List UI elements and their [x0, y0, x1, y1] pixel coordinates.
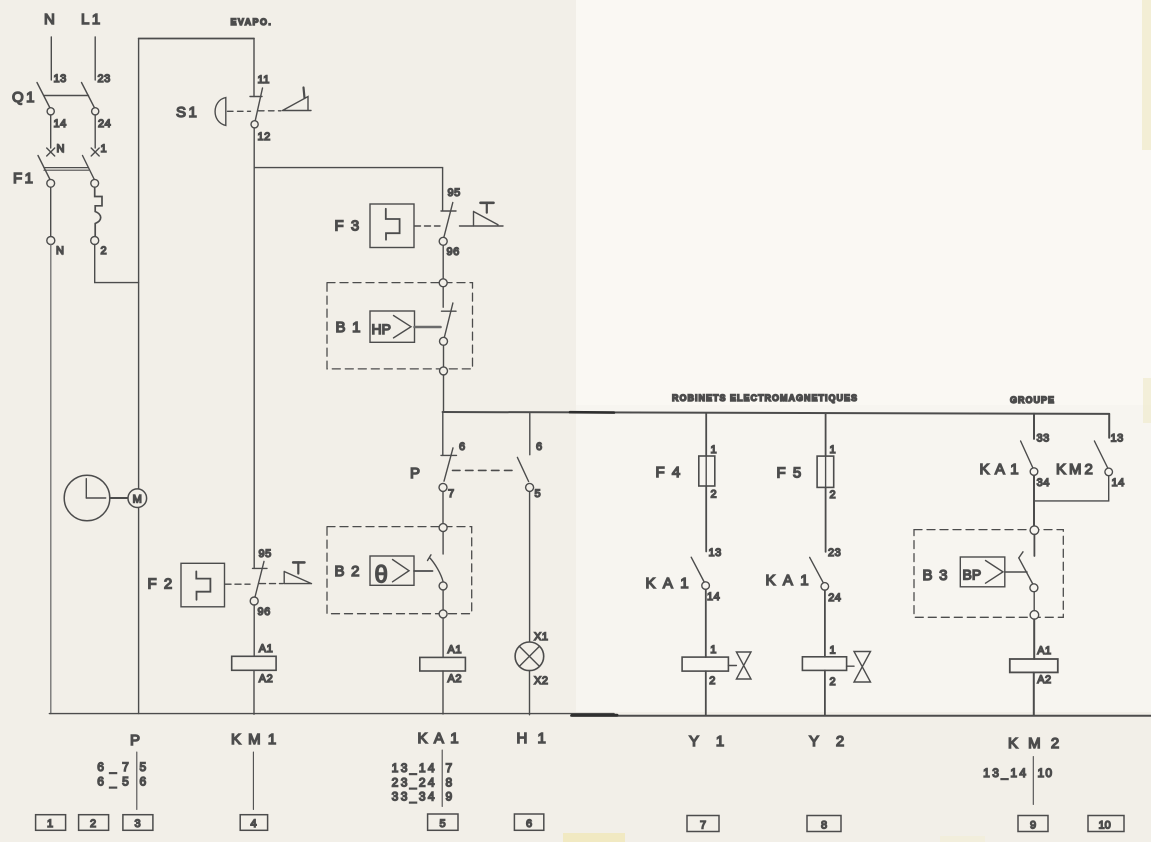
overload F1 heater element: [95, 187, 102, 236]
svg-text:A1: A1: [259, 643, 273, 655]
pressure switch B1 dashed box: [327, 283, 473, 369]
leader line KM2: [1032, 757, 1034, 805]
sheet box 1: [36, 815, 66, 831]
svg-text:K A 1: K A 1: [766, 572, 811, 589]
svg-text:6 _ 5: 6 _ 5: [97, 775, 130, 789]
wire F2-96 to KM1 coil: [253, 605, 255, 656]
relay F2 symbol: [196, 571, 210, 599]
svg-text:7: 7: [700, 820, 706, 832]
svg-text:2: 2: [90, 818, 96, 830]
wire KA1-34 down: [1033, 476, 1035, 527]
node B3 bottom terminal: [1030, 611, 1039, 620]
svg-text:M: M: [133, 494, 142, 506]
svg-text:13: 13: [709, 547, 722, 559]
valve Y2 body: [847, 665, 854, 667]
svg-text:BP: BP: [963, 567, 982, 583]
sheet box 2: [79, 815, 109, 831]
svg-text:10: 10: [1099, 820, 1111, 832]
svg-text:H 1: H 1: [517, 730, 549, 747]
thermostat B2 dashed box: [327, 527, 472, 614]
svg-text:96: 96: [258, 606, 271, 618]
svg-text:A2: A2: [448, 673, 462, 685]
contact P mechanical dashed link: [453, 469, 518, 471]
wire rail overlap joint: [570, 411, 614, 414]
svg-text:GROUPE: GROUPE: [1010, 395, 1055, 405]
svg-text:F1: F1: [13, 170, 36, 187]
leader line KA1: [441, 750, 443, 807]
svg-text:6: 6: [536, 441, 543, 453]
svg-text:2: 2: [709, 675, 716, 687]
terminal cross N: [47, 148, 55, 156]
svg-text:A1: A1: [1037, 645, 1051, 657]
overload F1 mechanical link: [44, 167, 89, 169]
motor M of timer: [128, 489, 147, 508]
svg-text:33: 33: [1037, 433, 1050, 445]
svg-text:24: 24: [98, 118, 111, 130]
wire Y1 to rail: [705, 671, 707, 715]
wire F5 to KA1 contact: [825, 487, 827, 552]
node B2 bottom terminal: [439, 610, 447, 618]
svg-text:5: 5: [440, 818, 446, 830]
svg-text:95: 95: [448, 187, 461, 199]
wire KM2 13-14 drop: [1108, 414, 1110, 438]
node B1 top terminal: [439, 279, 447, 287]
wire KM1 coil to rail: [253, 670, 255, 714]
svg-text:5: 5: [140, 760, 148, 774]
contact F2 95-96 tick: [253, 567, 268, 569]
svg-text:6: 6: [459, 441, 466, 453]
svg-text:1: 1: [47, 818, 53, 830]
svg-text:HP: HP: [372, 321, 391, 337]
svg-text:K M 1: K M 1: [231, 731, 278, 748]
wire L1 supply: [94, 37, 96, 80]
wire B2 to KA1 coil: [442, 618, 444, 657]
wire B1 internal bottom: [443, 345, 445, 367]
svg-text:13_14: 13_14: [392, 761, 437, 775]
svg-text:2: 2: [830, 676, 837, 688]
pressure switch B3 dashed box: [914, 530, 1063, 618]
switch S1 actuator dashes: [228, 110, 251, 112]
leader line P: [136, 752, 138, 810]
svg-text:F 2: F 2: [148, 576, 174, 593]
svg-text:14: 14: [1112, 477, 1125, 489]
svg-text:9: 9: [446, 790, 454, 804]
svg-text:13: 13: [54, 73, 67, 85]
switch S1 flag I: [283, 97, 312, 111]
svg-text:10: 10: [1038, 766, 1054, 780]
wire F4 to KA1 contact: [705, 486, 707, 552]
wire KA1-14 to Y1: [705, 589, 707, 657]
valve coil Y1: [682, 657, 728, 671]
svg-text:KM2: KM2: [1056, 461, 1096, 478]
svg-text:K A 1: K A 1: [980, 461, 1020, 478]
svg-text:9: 9: [1030, 820, 1036, 832]
contact B1 tick: [442, 310, 457, 312]
sheet box 10: [1088, 816, 1124, 832]
wire P-7 to B2: [442, 492, 444, 524]
svg-text:2: 2: [711, 489, 718, 501]
switch Q1 pole 13-14 blade: [37, 83, 50, 109]
wire B3 to KM2 coil: [1033, 619, 1035, 659]
svg-text:F 5: F 5: [777, 465, 803, 482]
valve coil Y2: [802, 657, 846, 671]
sheet box 6: [514, 814, 543, 830]
svg-text:ROBINETS ELECTROMAGNETIQUES: ROBINETS ELECTROMAGNETIQUES: [672, 393, 858, 403]
svg-text:A2: A2: [1037, 674, 1051, 686]
contact KA1 23-24 blade: [810, 557, 824, 582]
relay F3 box: [370, 204, 414, 248]
svg-text:N: N: [44, 11, 57, 28]
svg-text:X2: X2: [534, 675, 548, 687]
wire S1 drop: [253, 39, 255, 97]
timer clock symbol: [64, 475, 110, 521]
svg-text:7: 7: [446, 761, 454, 775]
svg-text:8: 8: [821, 820, 827, 832]
sensor B1 actuator link: [415, 326, 441, 329]
sensor B3 BP box: [960, 557, 1005, 587]
wire KA1 33-34 drop: [1033, 414, 1035, 439]
svg-text:8: 8: [446, 776, 454, 790]
wire KA1 coil to rail: [442, 671, 444, 714]
svg-text:Y 1: Y 1: [689, 733, 731, 750]
scan stain right mid: [1143, 378, 1151, 423]
wire P-5 to H1: [529, 492, 531, 642]
contact B1 blade: [444, 303, 453, 338]
svg-text:33_34: 33_34: [392, 790, 437, 804]
scan stain right top: [1142, 0, 1151, 150]
wire Y2 to rail: [824, 670, 826, 715]
svg-text:1: 1: [711, 444, 718, 456]
scan bright page right lower: [576, 0, 1151, 712]
fuse F4: [705, 456, 707, 486]
svg-text:3: 3: [135, 818, 141, 830]
leader line KM1: [252, 752, 254, 810]
svg-text:N: N: [57, 143, 65, 155]
contact KA1 33-34 blade: [1021, 441, 1033, 468]
fuse F5: [825, 456, 827, 487]
svg-text:13_14: 13_14: [983, 766, 1028, 780]
svg-text:P: P: [130, 732, 143, 749]
contact P right blade: [517, 457, 528, 481]
svg-text:K A 1: K A 1: [418, 730, 461, 747]
svg-text:5: 5: [535, 488, 542, 500]
svg-text:34: 34: [1037, 477, 1050, 489]
contact B2 blade: [428, 555, 444, 582]
relay F2 box: [181, 563, 225, 607]
svg-text:1: 1: [830, 444, 837, 456]
contact B3 blade: [1019, 558, 1033, 584]
svg-text:1: 1: [710, 644, 717, 656]
sensor B2 theta box: [370, 556, 414, 585]
svg-text:Q1: Q1: [12, 89, 37, 106]
sheet box 8: [807, 816, 841, 832]
overload F1 pole 1 blade: [83, 156, 95, 180]
svg-text:12: 12: [258, 131, 271, 143]
svg-text:P: P: [410, 465, 423, 482]
contact KA1 13-14 blade: [691, 557, 704, 582]
switch Q1 pole 23-24 blade: [82, 83, 95, 109]
wire F1-N to terminal: [50, 187, 52, 236]
flag T of F2: [284, 572, 311, 584]
contact P blade: [444, 448, 453, 481]
wire branch to F3 column: [254, 168, 442, 211]
svg-text:13: 13: [1111, 433, 1124, 445]
svg-text:23: 23: [828, 547, 841, 559]
wire N supply: [50, 37, 52, 80]
svg-text:14: 14: [54, 118, 67, 130]
svg-text:95: 95: [259, 548, 272, 560]
wire B3 internal bottom: [1033, 592, 1035, 611]
svg-text:1: 1: [101, 143, 108, 155]
svg-text:θ: θ: [375, 562, 388, 589]
wire B2 internal top: [442, 532, 444, 554]
flag T of F3: [474, 212, 504, 227]
svg-text:Y 2: Y 2: [809, 733, 851, 750]
svg-text:2: 2: [830, 489, 837, 501]
wire B2 internal bottom: [442, 590, 444, 610]
svg-text:6: 6: [526, 818, 532, 830]
node B1 bottom terminal: [440, 367, 448, 375]
svg-text:11: 11: [258, 74, 270, 86]
svg-text:6 _ 7: 6 _ 7: [97, 760, 130, 774]
svg-text:A2: A2: [259, 673, 273, 685]
wire Q1-24 to F1: [94, 115, 96, 148]
wire F3-96 to B1: [442, 245, 444, 279]
switch S1 pushbutton head: [215, 98, 226, 126]
lamp H1: [515, 642, 544, 671]
switch S1 blade: [255, 88, 262, 121]
scan stain bottom center: [563, 833, 625, 842]
contact F3 95-96 tick: [441, 210, 456, 212]
svg-text:1: 1: [830, 645, 837, 657]
wire S1-12 down to F2: [253, 128, 255, 569]
sheet box 5: [428, 814, 458, 830]
wire KM2 coil to rail: [1033, 672, 1035, 715]
svg-text:F 4: F 4: [656, 464, 682, 481]
wire main vertical feeder: [138, 39, 140, 714]
svg-text:N: N: [56, 245, 64, 257]
terminal cross 1: [91, 148, 99, 156]
svg-text:K M 2: K M 2: [1008, 735, 1062, 752]
contact KM2 13-14 blade: [1094, 441, 1107, 468]
sheet box 7: [687, 816, 719, 832]
contact P 6-5 drop: [529, 414, 531, 455]
scan bright page right upper: [576, 0, 1151, 405]
svg-text:X1: X1: [534, 631, 548, 643]
scan stain bottom right: [940, 836, 985, 842]
svg-text:6: 6: [140, 775, 148, 789]
wire KA1-24 to Y2: [824, 590, 826, 657]
terminal circle N: [47, 237, 55, 245]
wire B3 internal top: [1033, 535, 1035, 557]
svg-text:B 2: B 2: [335, 563, 361, 580]
sensor B1 HP box: [370, 311, 415, 342]
svg-text:14: 14: [707, 591, 720, 603]
wire F5 drop: [825, 413, 827, 456]
svg-text:7: 7: [448, 488, 455, 500]
wire F1-2 to main vertical: [95, 245, 139, 283]
svg-text:2: 2: [101, 245, 108, 257]
wire B1 internal top: [442, 287, 444, 307]
sheet box 4: [240, 815, 267, 831]
svg-text:EVAPO.: EVAPO.: [231, 17, 273, 27]
sensor B2 actuator link: [414, 570, 433, 572]
wire F4 drop: [705, 413, 707, 456]
node B2 top terminal: [439, 524, 447, 532]
terminal circle 2: [91, 237, 99, 245]
switch Q1 mechanical link: [44, 95, 89, 97]
relay F2 actuator dashes: [225, 583, 250, 585]
sheet box 3: [123, 815, 153, 831]
wire bottom rail left: [49, 713, 614, 715]
contact F2 blade: [255, 561, 264, 597]
relay F3 actuator dashes: [415, 225, 441, 227]
svg-text:A1: A1: [448, 644, 462, 656]
valve Y1 body: [728, 665, 736, 667]
wire N down left rail: [50, 245, 52, 714]
svg-text:S1: S1: [176, 104, 199, 121]
svg-text:23_24: 23_24: [392, 776, 437, 790]
wire B1 to rail junction: [443, 375, 445, 412]
wire H1 to rail: [529, 671, 531, 715]
svg-text:L1: L1: [81, 11, 103, 28]
overload F1 pole N blade: [38, 156, 50, 180]
switch S1 fixed contact tick: [250, 96, 262, 98]
contact P 6-7 drop: [442, 413, 444, 455]
sensor B3 actuator link: [1005, 571, 1027, 573]
coil KM1: [232, 656, 276, 670]
svg-text:B 3: B 3: [923, 567, 949, 584]
wire Q1-14 to F1: [50, 115, 52, 148]
sheet box 9: [1018, 816, 1048, 832]
contact F3 blade: [444, 203, 453, 238]
svg-text:K A 1: K A 1: [646, 575, 691, 592]
wire KM2-14 to junction: [1034, 476, 1109, 501]
wire distribution rail: [443, 412, 1110, 414]
svg-text:24: 24: [828, 592, 841, 604]
svg-text:B 1: B 1: [336, 319, 362, 336]
svg-text:96: 96: [447, 246, 460, 258]
wire bottom rail overlap joint: [572, 714, 617, 717]
coil KM2: [1010, 659, 1058, 672]
wire bottom rail right: [571, 715, 1151, 717]
timer link: [110, 497, 128, 499]
coil KA1: [420, 657, 466, 671]
node B3 top terminal: [1030, 526, 1039, 535]
relay F3 symbol: [386, 209, 400, 240]
svg-text:F 3: F 3: [335, 218, 361, 235]
wire top rail: [139, 38, 254, 40]
contact P tick: [441, 454, 457, 456]
svg-text:4: 4: [251, 818, 257, 830]
svg-text:23: 23: [98, 73, 111, 85]
